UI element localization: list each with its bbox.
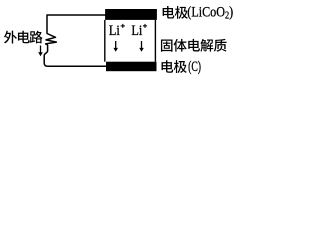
Li+ migration arrow (right)	[139, 41, 144, 52]
label 外电路	[4, 31, 43, 44]
electrode bar bottom (C anode)	[106, 62, 157, 71]
electrolyte right wall	[154, 20, 156, 62]
label 电极(C)	[162, 60, 187, 73]
current direction arrow (external circuit)	[38, 46, 43, 57]
wire external circuit with squiggle	[44, 15, 106, 66]
svg-text:Li: Li	[131, 23, 142, 39]
svg-text:Li: Li	[109, 23, 120, 39]
svg-text:(C): (C)	[188, 59, 201, 75]
label 固体电解质	[161, 39, 227, 52]
electrode bar top (LiCoO2 cathode)	[105, 9, 157, 20]
Li+ migration arrow (left)	[113, 41, 118, 52]
electrolyte left wall	[104, 20, 106, 62]
background	[0, 0, 242, 78]
label 电极(LiCoO2)	[163, 6, 188, 19]
